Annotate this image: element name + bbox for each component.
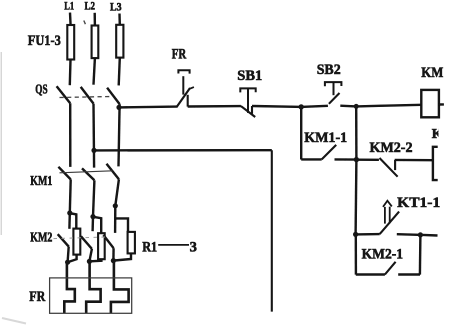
svg-text:KT1-1: KT1-1 (397, 195, 440, 211)
svg-text:L3: L3 (110, 1, 122, 13)
svg-text:KM2: KM2 (30, 230, 52, 245)
svg-text:FU1-3: FU1-3 (28, 33, 61, 49)
svg-text:R1: R1 (142, 239, 157, 255)
svg-text:SB2: SB2 (317, 62, 341, 78)
svg-text:FR: FR (29, 289, 45, 305)
svg-text:L2: L2 (85, 1, 96, 13)
svg-text:KM1-1: KM1-1 (304, 130, 347, 146)
svg-text:QS: QS (35, 81, 48, 96)
svg-text:3: 3 (190, 240, 197, 256)
svg-text:SB1: SB1 (237, 68, 262, 84)
svg-text:KM1: KM1 (30, 173, 52, 188)
svg-text:FR: FR (172, 47, 187, 63)
svg-text:KM: KM (421, 65, 443, 81)
svg-text:KM2-2: KM2-2 (370, 140, 413, 156)
svg-text:KM2-1: KM2-1 (362, 247, 404, 263)
svg-text:L1: L1 (64, 1, 74, 13)
